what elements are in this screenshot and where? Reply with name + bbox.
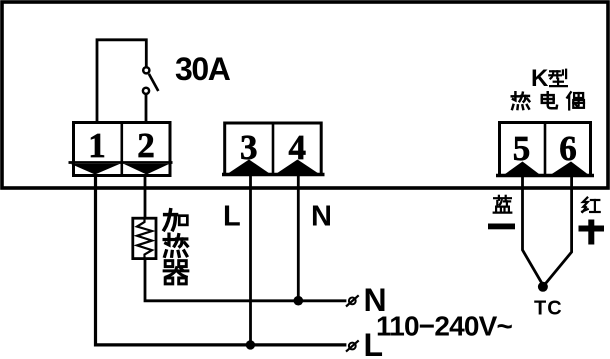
thermocouple junction dot TC (538, 282, 548, 292)
svg-text:L: L (223, 201, 241, 233)
wire terminal 3 down to L line (249, 175, 252, 345)
junction dot terminal3 / L line (246, 340, 255, 349)
wire terminal 6 down to thermocouple (544, 176, 572, 287)
controller outline box (2, 2, 608, 188)
label 热电偶 (512, 92, 530, 109)
terminal 3 wedge contact (227, 160, 272, 175)
N supply terminal slash (346, 295, 359, 306)
wire terminal1 up to relay switch (97, 40, 146, 123)
terminal plate line 5-6 (496, 174, 594, 177)
wire terminal 5 down to thermocouple (523, 176, 543, 286)
relay switch bottom contact (143, 88, 149, 94)
terminal block 1-2 divider (121, 123, 124, 176)
junction dot terminal4 / N line (294, 296, 304, 306)
label 红 (red) (582, 198, 600, 212)
terminal 2 wedge contact (124, 164, 169, 175)
svg-text:K: K (531, 65, 549, 92)
terminal 4 wedge contact (275, 160, 320, 175)
heater element box (133, 218, 156, 258)
svg-text:5: 5 (513, 129, 531, 168)
wire terminal 1 down and L supply line (96, 176, 347, 345)
L supply terminal slash (346, 340, 359, 351)
wire terminal 2 down to heater (144, 176, 147, 219)
terminal block 3-4 outline (225, 123, 322, 175)
N supply terminal circle (349, 298, 356, 305)
svg-text:6: 6 (559, 129, 577, 168)
relay switch lever (149, 74, 158, 91)
terminal plate line 3-4 (222, 173, 325, 176)
L supply terminal circle (349, 343, 356, 350)
svg-text:TC: TC (534, 298, 563, 320)
svg-text:N: N (311, 201, 332, 233)
wire switch bottom contact to terminal 2 (145, 95, 148, 123)
wire heater down to N line (145, 259, 346, 301)
svg-text:2: 2 (137, 126, 155, 165)
terminal block 1-2 outline (74, 123, 171, 176)
terminal 1 wedge contact (71, 164, 120, 175)
minus polarity mark (488, 224, 515, 230)
relay switch top contact (143, 67, 149, 73)
terminal plate line 1-2 (69, 161, 173, 164)
terminal 5 wedge contact (503, 162, 541, 176)
terminal 6 wedge contact (550, 162, 590, 176)
svg-text:30A: 30A (175, 51, 231, 87)
svg-text:110−240V~: 110−240V~ (376, 311, 513, 342)
label 蓝 (blue) (494, 196, 512, 213)
terminal block 3-4 divider (272, 123, 275, 175)
wire terminal 4 down to N line (297, 175, 300, 301)
plus polarity mark (579, 220, 605, 245)
svg-text:1: 1 (88, 126, 106, 165)
heater coil zigzag (137, 219, 152, 258)
terminal block 5-6 divider (544, 123, 547, 176)
terminal block 5-6 outline (500, 123, 591, 176)
label 加热器 (164, 210, 187, 230)
